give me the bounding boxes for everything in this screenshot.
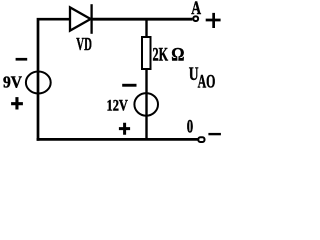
wire branch (junction to resistor) [145, 18, 147, 37]
plus at terminal A [206, 13, 221, 28]
svg-text:9V: 9V [3, 72, 22, 91]
voltage source 9V circle [26, 72, 51, 94]
wire top-left segment (corner to diode anode) [38, 19, 70, 141]
terminal 0 [198, 137, 204, 142]
minus of 9V source [16, 58, 28, 61]
wire bottom (left corner to terminal 0) [37, 138, 198, 141]
diode VD triangle [70, 7, 91, 30]
svg-text:VD: VD [76, 34, 92, 54]
wire branch (resistor to 12V source and to bottom wire) [145, 69, 147, 140]
minus at terminal 0 [208, 133, 221, 135]
terminal A [193, 16, 198, 21]
svg-text:12V: 12V [107, 98, 129, 115]
minus of 12V source [122, 84, 136, 87]
svg-text:AO: AO [198, 71, 216, 92]
wire top-right segment (diode cathode to terminal A) [92, 18, 192, 21]
svg-text:0: 0 [187, 116, 193, 137]
diode VD cathode bar [90, 4, 92, 34]
svg-text:2K: 2K [153, 44, 169, 65]
svg-text:A: A [191, 0, 201, 19]
resistor 2K body [142, 37, 151, 69]
voltage source 12V circle [134, 93, 158, 116]
plus of 9V source [11, 97, 23, 109]
svg-text:Ω: Ω [171, 46, 184, 66]
plus of 12V source [119, 123, 130, 135]
